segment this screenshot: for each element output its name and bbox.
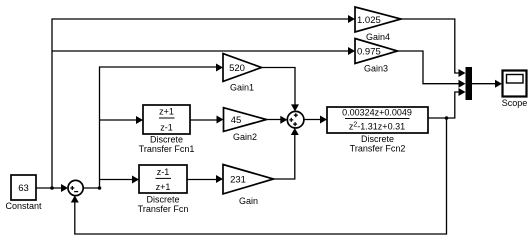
svg-text:Scope: Scope xyxy=(502,98,528,108)
svg-text:Transfer Fcn: Transfer Fcn xyxy=(138,204,189,214)
svg-text:231: 231 xyxy=(230,174,246,185)
svg-text:Gain1: Gain1 xyxy=(230,83,254,93)
svg-text:z+1: z+1 xyxy=(159,107,174,117)
svg-text:520: 520 xyxy=(229,63,245,74)
svg-text:Gain: Gain xyxy=(239,196,258,206)
svg-text:Gain4: Gain4 xyxy=(366,32,390,42)
svg-text:Transfer Fcn2: Transfer Fcn2 xyxy=(350,144,406,154)
svg-text:Discrete: Discrete xyxy=(146,195,179,205)
svg-text:1.025: 1.025 xyxy=(357,15,381,26)
svg-text:Discrete: Discrete xyxy=(361,134,394,144)
svg-text:63: 63 xyxy=(18,183,29,194)
svg-text:45: 45 xyxy=(231,115,242,126)
svg-text:z-1: z-1 xyxy=(157,167,170,177)
svg-text:0.975: 0.975 xyxy=(357,46,381,57)
svg-text:Gain3: Gain3 xyxy=(364,64,388,74)
svg-text:Gain2: Gain2 xyxy=(233,132,257,142)
svg-text:z2-1.31z+0.31: z2-1.31z+0.31 xyxy=(349,122,405,132)
svg-text:Discrete: Discrete xyxy=(150,135,183,145)
svg-text:Transfer Fcn1: Transfer Fcn1 xyxy=(139,144,195,154)
svg-text:z+1: z+1 xyxy=(156,182,171,192)
svg-text:Constant: Constant xyxy=(5,201,42,211)
svg-text:0.00324z+0.0049: 0.00324z+0.0049 xyxy=(342,108,412,118)
svg-text:z-1: z-1 xyxy=(160,122,173,132)
